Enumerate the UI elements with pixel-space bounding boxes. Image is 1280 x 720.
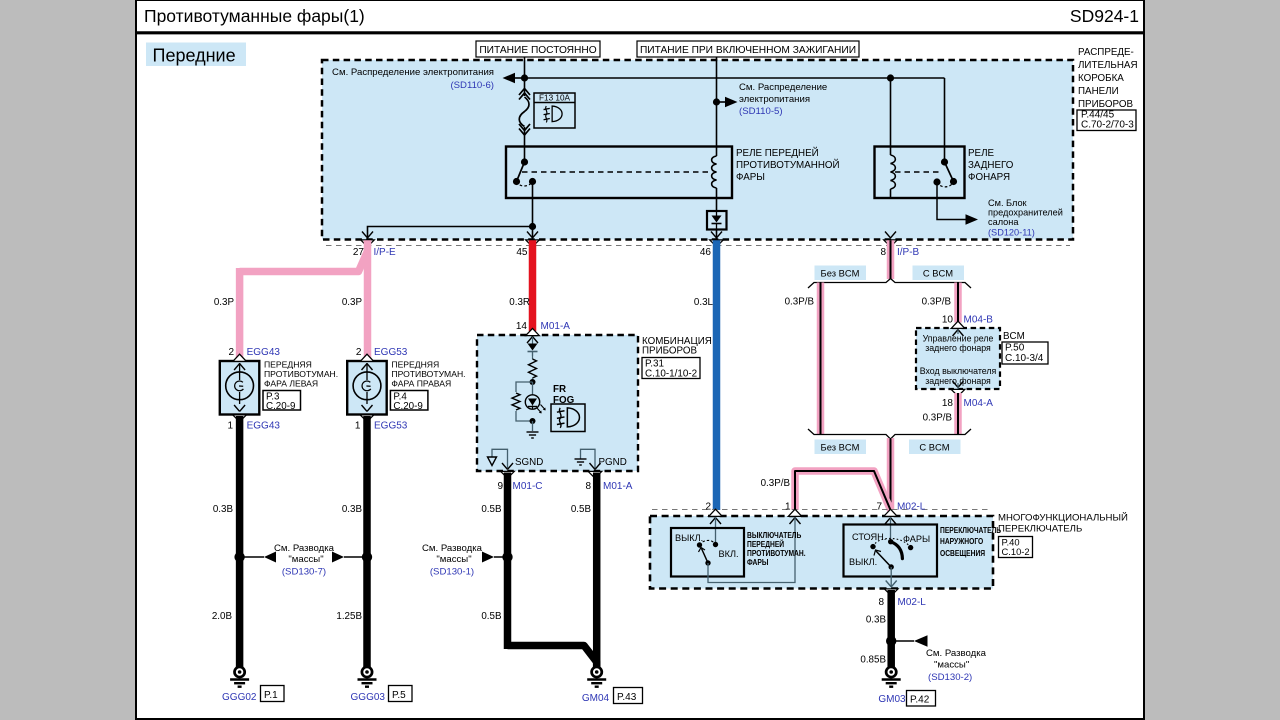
svg-text:1.25B: 1.25B [336,611,362,622]
svg-text:См. Блок: См. Блок [988,198,1028,208]
svg-text:0.3P/B: 0.3P/B [785,297,815,308]
connector face dashed line multifunction [652,509,991,511]
pin 9 M01-C exit [497,471,542,492]
cluster entry arrow pin14 [526,328,540,343]
svg-text:0.3B: 0.3B [213,504,234,515]
diode D1 box [707,211,727,230]
svg-text:0.5B: 0.5B [481,611,502,622]
node B junction dot SD110-5 [713,98,720,105]
relay K1 contact NC dot [513,178,520,185]
arrow to SD130-2 text [891,635,927,646]
svg-text:0.3R: 0.3R [509,297,530,308]
label 0.5B left [481,504,502,515]
svg-text:0.3P/B: 0.3P/B [922,297,952,308]
relay K1 front fog lamp relay box [506,147,732,199]
svg-text:ПРОТИВОТУМАННОЙ: ПРОТИВОТУМАННОЙ [736,159,840,171]
pin 10 M04-B entry label [942,315,993,326]
svg-text:M01-A: M01-A [603,481,633,492]
blue wire 0.3L [713,240,721,510]
fork upper to BCM variants [808,279,971,289]
pin 18 M04-A exit [942,381,993,409]
svg-text:Передние: Передние [153,46,236,66]
svg-text:M02-L: M02-L [897,502,926,513]
svg-text:PGND: PGND [599,457,627,468]
svg-text:ФАРЫ: ФАРЫ [747,557,769,567]
S2 side label [940,525,1002,558]
pin 1 entry [785,502,802,525]
pink-black wire merge to pin 7 [887,438,895,510]
label 0.5B right [571,504,592,515]
svg-text:ЗАДНЕГО: ЗАДНЕГО [968,160,1014,171]
node dot cluster top [530,379,536,385]
svg-text:EGG53: EGG53 [374,421,408,432]
svg-text:См. Разводка: См. Разводка [274,543,335,554]
node dot ground splice SD130-2 [886,636,896,646]
cluster resistor R1 [529,352,537,383]
ref box P.40 [999,537,1033,558]
relay K2 arm end dot [950,178,957,185]
relay K1 coil [712,156,717,211]
black wire M01-C down [508,473,597,668]
S1 output wire to pin 1 [708,517,795,583]
label Без BCM lower [815,440,867,455]
label 0.5B lower [481,611,502,622]
svg-text:2: 2 [705,502,711,513]
svg-text:СТОЯН.: СТОЯН. [852,532,886,542]
svg-text:1: 1 [785,502,791,513]
node dot splice right lamp [362,552,372,562]
svg-text:C.10-2: C.10-2 [1002,546,1030,557]
S2 text ФАРЫ [903,534,930,544]
pin 14 M01-A entry label [516,321,570,332]
svg-text:ПАНЕЛИ: ПАНЕЛИ [1078,86,1119,97]
svg-text:ПИТАНИЕ ПРИ ВКЛЮЧЕННОМ ЗАЖИГАН: ПИТАНИЕ ПРИ ВКЛЮЧЕННОМ ЗАЖИГАНИИ [640,45,856,56]
pink-black wire pin18 down [954,393,962,435]
svg-text:"массы": "массы" [934,660,969,671]
svg-text:GM04: GM04 [582,693,610,704]
black wire M01-A down [593,473,601,668]
S1 text ВЫКЛ [675,533,703,543]
svg-text:0.3P/B: 0.3P/B [923,413,953,424]
svg-text:салона: салона [988,217,1019,227]
wire from constant power down to node A [524,57,526,78]
arrow SD130-1 [482,552,508,563]
BCM box dashed [916,328,1000,389]
wire corner to relay2 contact [944,78,946,162]
svg-text:(SD130-2): (SD130-2) [928,672,972,683]
power box ПИТАНИЕ ПРИ ВКЛЮЧЕННОМ ЗАЖИГАНИИ [637,41,859,57]
svg-text:BCM: BCM [1003,331,1025,342]
svg-text:P.1: P.1 [264,690,278,701]
svg-text:M01-A: M01-A [541,321,571,332]
bus wire node A to relay2 area [525,77,945,79]
light switch S2 box [844,525,938,577]
svg-text:M02-L: M02-L [898,597,927,608]
wire diode to pin 46 [716,230,718,240]
wire node C down to relay2 coil [890,78,892,155]
svg-text:С BCM: С BCM [923,268,953,279]
svg-text:M04-A: M04-A [964,398,994,409]
svg-text:НАРУЖНОГО: НАРУЖНОГО [940,536,983,546]
node junction dot at relay output [529,223,536,230]
pink-black wire right branch to BCM pin 10 [954,283,962,323]
svg-text:0.3P: 0.3P [342,297,363,308]
svg-text:9: 9 [497,481,503,492]
svg-text:45: 45 [516,247,528,258]
svg-text:0.5B: 0.5B [481,504,502,515]
svg-text:2: 2 [228,347,234,358]
label 0.3P/B upper left [785,297,815,308]
svg-text:7: 7 [876,502,882,513]
node dot cluster bottom [530,418,536,424]
cluster ground symbol [527,421,539,438]
pin 45 exit [516,232,539,259]
S1 text ВКЛ [719,549,739,559]
pink-black wire left branch no-BCM [817,283,825,435]
connector chevrons below fuse [519,124,530,162]
svg-text:С BCM: С BCM [919,442,949,453]
label 0.3L [694,297,714,308]
svg-text:МНОГОФУНКЦИОНАЛЬНЫЙ: МНОГОФУНКЦИОНАЛЬНЫЙ [998,512,1128,524]
svg-text:ПЕРЕДНЯЯ: ПЕРЕДНЯЯ [264,360,312,370]
multifunction switch label [998,512,1128,535]
svg-text:GGG02: GGG02 [222,692,257,703]
svg-text:"массы": "массы" [436,554,471,565]
text BCM [1003,331,1025,342]
wire junction down to pin 45 [532,227,534,241]
text see SD110-5 [739,82,827,117]
svg-text:0.85B: 0.85B [860,655,886,666]
svg-text:ПИТАНИЕ ПОСТОЯННО: ПИТАНИЕ ПОСТОЯННО [479,45,596,56]
relay K2 contact arm [945,162,954,182]
relay K2 output wire to fuse box note [937,182,978,225]
text see SD130-2 [926,648,987,683]
diode D1 symbol [712,211,722,230]
svg-text:РЕЛЕ ПЕРЕДНЕЙ: РЕЛЕ ПЕРЕДНЕЙ [736,147,819,159]
label 2.0B [212,611,233,622]
svg-text:ПРИБОРОВ: ПРИБОРОВ [642,346,697,357]
svg-text:ФАРЫ: ФАРЫ [903,534,930,544]
svg-text:M04-B: M04-B [964,315,994,326]
S2 text СТОЯН [852,532,886,542]
relay K2 dashed link [895,171,940,173]
pin 2 entry [705,502,722,525]
arrow to SD110-5 text [717,97,738,108]
label 0.3P left [214,297,235,308]
svg-text:I/P-E: I/P-E [374,247,397,258]
svg-text:0.3L: 0.3L [694,297,714,308]
svg-text:(SD110-6): (SD110-6) [450,80,494,91]
cluster parallel resistor R2 branch [512,382,533,421]
relay K1 contact arc dashed [517,182,533,187]
S2 contact dots [870,539,913,570]
label 0.3B bottom [866,615,887,626]
power box ПИТАНИЕ ПОСТОЯННО [476,41,600,57]
svg-text:1: 1 [355,421,361,432]
svg-text:РЕЛЕ: РЕЛЕ [968,148,994,159]
svg-text:8: 8 [585,481,591,492]
label 0.3B right [342,504,363,515]
svg-text:P.50: P.50 [1005,343,1025,354]
wire node B to relay1 coil [716,102,718,156]
cluster label [642,336,712,357]
instrument cluster box КОМБИНАЦИЯ ПРИБОРОВ [477,335,638,471]
svg-text:электропитания: электропитания [739,94,810,105]
svg-text:0.3B: 0.3B [866,615,887,626]
relay K2 output dot [933,178,940,185]
text see SD130-1 [422,543,483,578]
white page area [136,0,1144,719]
svg-text:F13 10A: F13 10A [539,94,570,103]
svg-text:SGND: SGND [515,457,543,468]
S2 dotted arc [873,538,911,547]
label 0.3P right [342,297,363,308]
pin 8 M02-L exit [878,589,926,608]
PGND symbol [575,449,627,469]
svg-text:ПЕРЕКЛЮЧАТЕЛЬ: ПЕРЕКЛЮЧАТЕЛЬ [940,525,1002,535]
svg-text:См. Распределение: См. Распределение [739,82,827,93]
svg-text:(SD130-1): (SD130-1) [430,567,474,578]
title underline [136,31,1144,34]
svg-text:См. Распределение электропитан: См. Распределение электропитания [332,67,494,78]
svg-text:Противотуманные фары(1): Противотуманные фары(1) [144,6,365,26]
svg-text:См. Разводка: См. Разводка [422,543,483,554]
svg-text:8: 8 [880,247,886,258]
label Без BCM upper [815,266,867,281]
svg-text:46: 46 [700,247,712,258]
label 0.85B [860,655,886,666]
svg-text:ПЕРЕДНЯЯ: ПЕРЕДНЯЯ [391,360,439,370]
sheet number SD924-1 [1070,6,1139,26]
svg-text:(SD110-5): (SD110-5) [739,106,783,117]
LED FR FOG indicator [525,382,545,413]
svg-text:2.0B: 2.0B [212,611,233,622]
label 0.3P/B upper right [922,297,952,308]
ground GM04 [587,667,606,687]
svg-text:C.70-2/70-3: C.70-2/70-3 [1081,120,1134,131]
label 0.3P/B mid [923,413,953,424]
wire pin2 to fog switch [715,517,717,545]
fuse label box F13 10A with fog icon [534,93,575,128]
pink wire 0.3P branch to left lamp [240,251,368,358]
pink wire 0.3P to right lamp [364,240,372,358]
svg-text:SD924-1: SD924-1 [1070,6,1139,26]
pink-black wire 0.3P/B from pin 8 [887,240,895,279]
text see SD110-6 [332,67,494,91]
fork lower merge [808,429,971,439]
ref box P.31 [642,358,700,380]
svg-text:EGG43: EGG43 [247,421,281,432]
node A junction dot [521,74,528,81]
relay K1 output dot [529,178,536,185]
connector face dashed line [326,245,1070,247]
relay K2 contact common dot [941,158,948,165]
svg-text:ВКЛ.: ВКЛ. [719,549,739,559]
fog lamp left EGG43 [220,347,338,432]
svg-text:C.20-9: C.20-9 [266,401,295,412]
svg-text:EGG53: EGG53 [374,347,408,358]
svg-text:P.42: P.42 [910,695,930,706]
svg-text:ФАРА ПРАВАЯ: ФАРА ПРАВАЯ [391,378,451,388]
svg-text:"массы": "массы" [288,554,323,565]
ground GGG02 [230,667,249,687]
BCM text rear lamp relay control [923,334,994,354]
label Передние [146,43,246,67]
node dot splice left lamp [234,552,244,562]
svg-text:0.3P/B: 0.3P/B [761,478,791,489]
wire relay K1 output to pin 27 corner [368,227,533,241]
node dot splice M01-C [502,552,512,562]
svg-text:C.10-3/4: C.10-3/4 [1005,353,1044,364]
svg-text:См. Разводка: См. Разводка [926,648,987,659]
wire ignition power down [716,57,718,102]
svg-text:ЛИТЕЛЬНАЯ: ЛИТЕЛЬНАЯ [1078,60,1138,71]
label GM03 P.42 [878,691,935,707]
svg-text:C.20-9: C.20-9 [393,401,422,412]
black wire left lamp to ground [236,416,244,667]
label 0.3B left [213,504,234,515]
svg-text:I/P-B: I/P-B [897,247,920,258]
S1 contact dots [697,542,718,566]
relay K2 coil [891,155,896,198]
pin 7 M02-L entry [876,502,925,525]
svg-text:P.43: P.43 [617,692,637,703]
wire pin7 to light switch [890,517,892,542]
fuse F13 10A wavy element [519,97,529,127]
svg-text:ВЫКЛ.: ВЫКЛ. [849,557,877,567]
relay K1 contact common dot [521,158,528,165]
fog switch S1 box [671,528,744,577]
svg-text:ПРИБОРОВ: ПРИБОРОВ [1078,99,1133,110]
label GM04 P.43 [582,688,643,705]
relay K2 rear lamp relay box [875,147,965,199]
svg-text:заднего фонаря: заднего фонаря [925,343,991,353]
S1 arm with arrow [699,548,709,564]
pin 8 I/P-B exit [880,232,919,259]
svg-text:M01-C: M01-C [513,481,543,492]
node C junction dot above relay2 coil [887,74,894,81]
svg-text:0.3P: 0.3P [214,297,235,308]
svg-text:(SD130-7): (SD130-7) [282,567,326,578]
svg-text:GGG03: GGG03 [351,692,386,703]
red wire 0.3R [529,240,537,331]
svg-text:РАСПРЕДЕ-: РАСПРЕДЕ- [1078,47,1134,58]
svg-text:0.3B: 0.3B [342,504,363,515]
S2 text ВЫКЛ [849,557,877,567]
wire SD110-6 stub with arrow [503,73,525,84]
relay K2 contact arc dashed [937,182,954,187]
svg-text:ФАРЫ: ФАРЫ [736,172,765,183]
connector chevrons above fuse [519,78,530,100]
svg-text:Управление реле: Управление реле [923,334,994,344]
label GGG02 P.1 [222,686,284,704]
svg-text:0.5B: 0.5B [571,504,592,515]
ground GGG03 [358,667,377,687]
label С BCM lower [909,440,961,455]
pin 10 entry chevron [951,321,965,336]
svg-text:ПЕРЕКЛЮЧАТЕЛЬ: ПЕРЕКЛЮЧАТЕЛЬ [998,524,1082,535]
arrow pair SD130-7 [240,552,367,563]
text FR FOG [553,384,575,406]
svg-text:1: 1 [227,421,233,432]
SGND symbol [488,449,544,469]
S2 arm with arrow [874,550,891,567]
svg-text:2: 2 [356,347,362,358]
svg-text:ФОНАРЯ: ФОНАРЯ [968,172,1010,183]
relay K1 output wire [532,182,534,227]
S1 dashed arc [700,540,716,545]
ground GM03 [882,667,901,687]
ref box P.44/45 [1077,110,1136,131]
relay K2 label [968,148,1014,183]
svg-text:FR: FR [553,384,566,395]
svg-text:GM03: GM03 [878,694,906,705]
svg-text:ФАРА ЛЕВАЯ: ФАРА ЛЕВАЯ [264,378,318,388]
cluster diode [528,337,538,356]
svg-text:Без BCM: Без BCM [821,442,860,453]
svg-text:EGG43: EGG43 [247,347,281,358]
title text [144,6,365,26]
label 0.3P/B jumper [761,478,791,489]
text distribution box label right [1078,47,1138,110]
ref box P.50 [1002,342,1048,364]
svg-text:8: 8 [878,597,884,608]
label GGG03 P.5 [351,686,412,704]
relay K1 label [736,147,840,183]
relay K1 dashed link [522,171,709,173]
svg-text:C.10-1/10-2: C.10-1/10-2 [645,369,697,380]
pin 27 I/P-E exit [353,232,396,259]
svg-text:ВЫКЛ.: ВЫКЛ. [675,533,703,543]
svg-text:КОРОБКА: КОРОБКА [1078,73,1124,84]
label 0.3R [509,297,530,308]
BCM text rear lamp switch input [920,366,997,386]
relay K1 contact arm [517,162,525,182]
label С BCM upper [913,266,965,281]
svg-text:предохранителей: предохранителей [988,208,1063,218]
black wire right lamp to ground [363,416,371,667]
pink-black jumper pin1 to pin7 [795,471,891,510]
label 1.25B [336,611,362,622]
svg-text:10: 10 [942,315,954,326]
svg-text:P.5: P.5 [392,690,406,701]
S2 thick arc FARY position [891,542,903,559]
svg-text:ОСВЕЩЕНИЯ: ОСВЕЩЕНИЯ [940,548,986,558]
S2 output wire to pin 8 [886,567,897,587]
svg-text:14: 14 [516,321,528,332]
junction box (dashed blue) РАСПРЕДЕЛИТЕЛЬНАЯ КОРОБКА [322,60,1073,240]
svg-text:(SD120-11): (SD120-11) [988,228,1035,238]
S1 side label [747,530,806,567]
black wire M02-L to ground [887,590,895,667]
svg-text:Вход выключателя: Вход выключателя [920,366,997,376]
text see SD120-11 [988,198,1063,238]
multifunction switch box [650,516,993,589]
svg-text:18: 18 [942,398,954,409]
fog lamp right EGG53 [347,347,465,432]
pin 46 exit [700,232,723,259]
cluster fog icon box [551,404,585,432]
svg-text:Без BCM: Без BCM [821,268,860,279]
text see SD130-7 [274,543,335,578]
pin 8 M01-A exit [585,471,632,492]
